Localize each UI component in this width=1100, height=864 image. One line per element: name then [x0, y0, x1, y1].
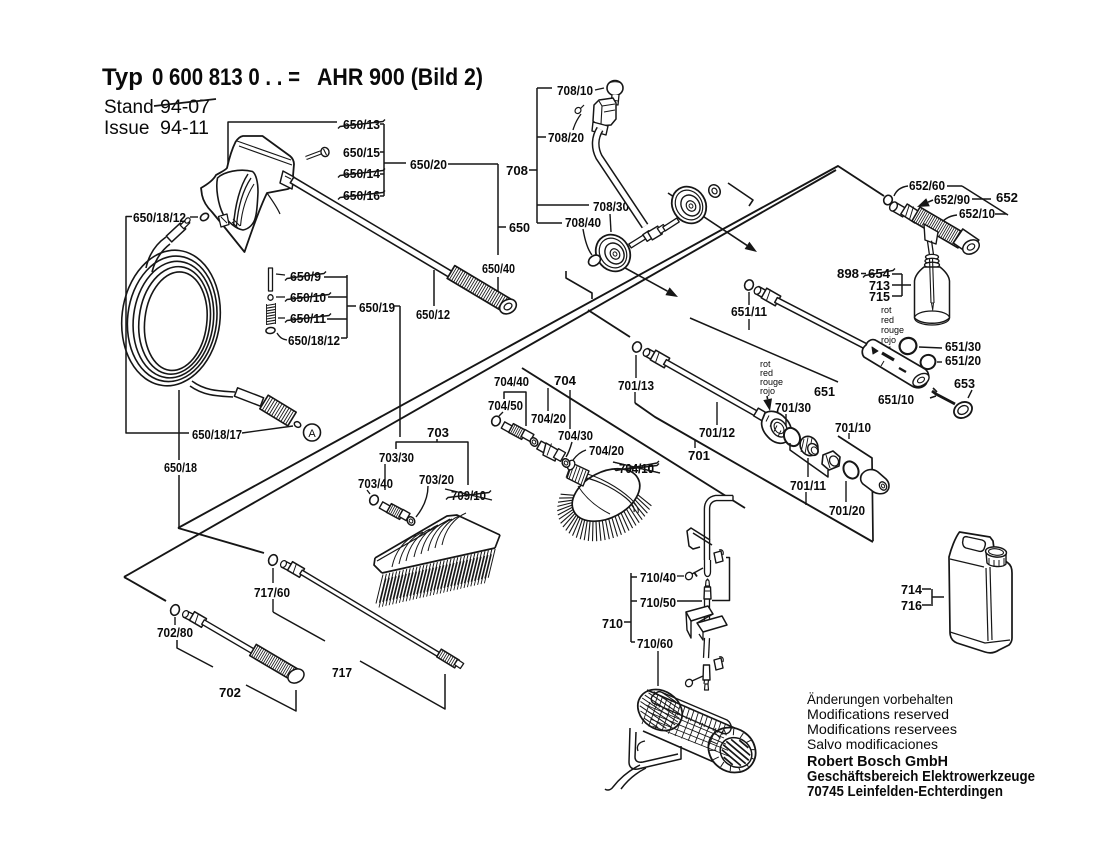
- bracket 714 716: [922, 588, 931, 590]
- adapter 704/40: [501, 422, 513, 433]
- leader 704/20 b: [573, 450, 586, 460]
- svg-text:714: 714: [901, 583, 922, 597]
- svg-text:A: A: [308, 428, 316, 440]
- brush 703 bristles: [376, 575, 383, 604]
- bracket 702: [177, 640, 213, 667]
- canister 714 body: [949, 532, 1012, 653]
- bracket gun labels right: [383, 124, 385, 196]
- brush 703 comb arcs: [392, 535, 416, 567]
- o-ring 701/13: [631, 341, 643, 354]
- svg-text:652/90: 652/90: [934, 193, 970, 207]
- nut 701/11 b: [822, 451, 840, 470]
- svg-text:704/50: 704/50: [488, 399, 523, 413]
- lance 650/12: [290, 177, 456, 280]
- leader 701: [694, 440, 696, 448]
- leader 703/40: [367, 490, 370, 494]
- grip 702: [250, 644, 301, 681]
- leader 701/10: [848, 433, 850, 439]
- o-ring 708/40: [586, 253, 602, 268]
- svg-text:650/19: 650/19: [359, 301, 395, 315]
- roller left end 710/60: [630, 681, 690, 739]
- svg-text:898: 898: [837, 267, 859, 281]
- svg-text:710/40: 710/40: [640, 571, 676, 585]
- threaded end 717: [437, 649, 460, 668]
- wheel left 708: [589, 228, 637, 278]
- gun outlet collar: [280, 171, 294, 189]
- svg-text:Geschäftsbereich Elektrowerkze: Geschäftsbereich Elektrowerkzeuge: [807, 769, 1035, 785]
- leader 717/60: [272, 568, 274, 583]
- svg-text:715: 715: [869, 290, 890, 304]
- bracket hose left: [126, 217, 189, 434]
- lance tube 701: [664, 360, 759, 417]
- stand wire 710: [629, 728, 681, 769]
- lance tip 651: [755, 287, 768, 299]
- o-ring 650/18/12 small: [266, 327, 276, 334]
- svg-text:650/18/12: 650/18/12: [288, 334, 340, 348]
- bracket 710: [630, 573, 632, 642]
- roller handle tube 710: [707, 498, 733, 560]
- bottle dip tube: [930, 258, 932, 303]
- svg-text:650/18/17: 650/18/17: [192, 428, 242, 442]
- screw 708/20: [577, 105, 584, 112]
- o-ring 703/40: [368, 494, 380, 507]
- connector sleeve 710/50: [704, 587, 711, 599]
- washer 708: [706, 183, 722, 200]
- canister handle slot: [963, 537, 986, 552]
- leader 710/60: [657, 651, 659, 686]
- svg-text:703/20: 703/20: [419, 473, 454, 487]
- basket fence bars: [655, 695, 659, 706]
- svg-text:701/13: 701/13: [618, 379, 654, 393]
- svg-text:652/10: 652/10: [959, 207, 995, 221]
- svg-text:651: 651: [814, 385, 835, 399]
- svg-text:710: 710: [602, 617, 623, 631]
- grip 650/40: [447, 266, 512, 313]
- bracket 652: [947, 185, 962, 187]
- svg-text:701/11: 701/11: [790, 479, 826, 493]
- bracket 708 top right: [728, 183, 753, 206]
- tube joint 710: [705, 560, 711, 577]
- adapter 703/40: [379, 502, 391, 513]
- hook 710: [687, 528, 710, 549]
- svg-text:701/20: 701/20: [829, 504, 865, 518]
- separator B corner branch to o-ring 702/80: [124, 577, 166, 601]
- svg-text:717: 717: [332, 666, 352, 680]
- basket mesh: [642, 702, 650, 724]
- leader 710/40: [677, 575, 684, 577]
- leader 703/30: [384, 464, 386, 490]
- washer 703/20: [406, 515, 417, 526]
- separator fork branch to o-ring 701/13: [588, 310, 630, 337]
- marker A circle: [304, 424, 321, 441]
- svg-text:rouge: rouge: [881, 325, 904, 335]
- o-ring 717/60: [267, 553, 279, 566]
- o-ring at hose nut: [293, 421, 301, 429]
- svg-text:704/40: 704/40: [494, 375, 529, 389]
- svg-text:651/30: 651/30: [945, 340, 981, 354]
- svg-text:Salvo modificaciones: Salvo modificaciones: [807, 736, 938, 752]
- arrow to bell 701/12: [766, 396, 769, 399]
- svg-text:702: 702: [219, 686, 241, 700]
- leader 710/50 dash: [677, 600, 702, 602]
- leader 651/30: [919, 347, 942, 348]
- bracket 717: [273, 612, 325, 641]
- basket rim: [651, 692, 731, 734]
- svg-text:716: 716: [901, 599, 922, 613]
- o-ring 702/80: [169, 603, 181, 616]
- bracket 701/30 701/11: [790, 443, 828, 477]
- svg-text:AHR 900 (Bild 2): AHR 900 (Bild 2): [317, 64, 483, 91]
- nozzle 701/10: [861, 470, 889, 494]
- separator line A: [178, 166, 884, 528]
- lance tip 701: [644, 349, 657, 361]
- leader 703/20: [416, 486, 428, 517]
- lance tube 702: [202, 620, 258, 655]
- lance tube 651: [775, 298, 871, 351]
- leader 651/11: [748, 292, 750, 305]
- svg-text:94-11: 94-11: [160, 118, 209, 139]
- svg-text:710/50: 710/50: [640, 596, 676, 610]
- svg-text:701/30: 701/30: [775, 401, 811, 415]
- hose nut 650/18/17: [260, 395, 296, 426]
- coupling 704/30: [537, 441, 550, 454]
- svg-text:Typ: Typ: [102, 64, 143, 91]
- svg-text:Modifications reserved: Modifications reserved: [807, 706, 949, 722]
- leader 650/18/12 top: [190, 216, 198, 218]
- ferrule 701/12: [754, 408, 771, 423]
- separator A corner branch to o-ring 717/60: [178, 528, 264, 553]
- leader 704/50: [499, 412, 503, 416]
- basket body outline: [647, 690, 737, 729]
- svg-text:0 600 813 0 . . =: 0 600 813 0 . . =: [152, 64, 300, 91]
- sprayer barrel 652/10: [912, 207, 966, 248]
- svg-text:717/60: 717/60: [254, 586, 290, 600]
- svg-text:703: 703: [427, 426, 449, 440]
- svg-text:652: 652: [996, 191, 1018, 205]
- svg-text:708/40: 708/40: [565, 216, 601, 230]
- lance tip 702: [183, 611, 194, 621]
- svg-text:708/30: 708/30: [593, 200, 629, 214]
- bottle 713: [915, 267, 950, 323]
- bracket 704/40: [504, 392, 526, 426]
- hose bottom tail: [192, 381, 235, 392]
- leader 708/40: [583, 229, 592, 255]
- o-ring 652/60: [882, 194, 893, 206]
- clamp block 708/20: [593, 98, 616, 126]
- leader 708/30: [610, 214, 611, 232]
- knob 708/10: [607, 81, 623, 96]
- o-ring 704/50: [490, 415, 502, 428]
- clip 710 a: [714, 551, 723, 563]
- leader 650/19 down: [393, 305, 400, 307]
- svg-text:701/10: 701/10: [835, 421, 871, 435]
- svg-text:703/30: 703/30: [379, 451, 414, 465]
- leader 704/20 from separator: [547, 388, 549, 411]
- leader 708/10: [595, 88, 604, 90]
- washer 704/20 b front: [561, 457, 572, 468]
- svg-text:Robert Bosch GmbH: Robert Bosch GmbH: [807, 754, 948, 770]
- leader 701/12: [716, 402, 718, 425]
- svg-text:650/15: 650/15: [343, 146, 380, 160]
- lance tube 717: [300, 570, 442, 658]
- svg-text:704: 704: [554, 374, 576, 388]
- leader 708/20: [573, 114, 581, 130]
- svg-text:708/20: 708/20: [548, 131, 584, 145]
- svg-text:710/60: 710/60: [637, 637, 673, 651]
- svg-text:rojo: rojo: [760, 386, 775, 396]
- nozzle 651/10: [862, 340, 928, 388]
- canister creases: [950, 559, 984, 567]
- hose ferrule 650/18/17: [234, 388, 263, 406]
- svg-text:Modifications reservees: Modifications reservees: [807, 721, 957, 737]
- sprayer T branch: [924, 224, 938, 244]
- bracket frame 701/10 right side: [838, 436, 873, 541]
- leader 701/20: [845, 481, 847, 502]
- bracket 708: [536, 88, 538, 223]
- separator line C2 701 group bracket: [635, 403, 873, 542]
- leader 652/10 curl: [939, 215, 957, 226]
- bracket 710 right: [712, 558, 730, 601]
- svg-text:650/20: 650/20: [410, 158, 447, 172]
- svg-text:650: 650: [509, 221, 530, 235]
- leader diag 651: [690, 318, 838, 382]
- svg-text:703/40: 703/40: [358, 477, 393, 491]
- clamp lower piece: [592, 122, 608, 135]
- gun body crease: [267, 193, 280, 214]
- svg-text:651/20: 651/20: [945, 354, 981, 368]
- arrow to nozzle 651/10: [885, 346, 887, 347]
- svg-text:rot: rot: [881, 305, 892, 315]
- roller drum 710/60: [700, 718, 765, 781]
- leader 652/60 curl: [894, 186, 908, 196]
- screw 710/40: [692, 568, 703, 574]
- bracket 708 bottom left: [566, 271, 592, 299]
- leader arrow 652/90: [928, 200, 933, 202]
- o-ring 650/18/12 top: [199, 212, 210, 222]
- gun trigger opening: [217, 170, 258, 230]
- separator line C1 under 703/704 group: [522, 368, 745, 508]
- o-ring 651/20: [918, 352, 938, 371]
- svg-text:704/30: 704/30: [558, 429, 593, 443]
- clip 710 b: [714, 658, 723, 670]
- leader 650/12: [433, 270, 435, 306]
- leader 701/13: [635, 355, 637, 378]
- brush 703 bottom edge: [382, 548, 495, 573]
- spray gun body 650: [201, 136, 294, 252]
- gun trigger: [234, 174, 249, 226]
- hose nipple 650/18: [166, 223, 185, 242]
- svg-text:650/18/12: 650/18/12: [133, 211, 186, 225]
- bell cup 701/12: [762, 411, 792, 443]
- washer 704/20 b: [561, 457, 572, 468]
- svg-text:701/12: 701/12: [699, 426, 735, 440]
- svg-text:red: red: [881, 315, 894, 325]
- brush 704 connector stub: [567, 463, 589, 486]
- roller drum face: [714, 732, 757, 774]
- pin 650/9: [269, 268, 273, 291]
- svg-text:rojo: rojo: [881, 335, 896, 345]
- hose coil 650/18: [114, 245, 228, 392]
- washer 704/20: [529, 436, 540, 447]
- svg-text:651/11: 651/11: [731, 305, 767, 319]
- round brush 704/10 dome: [563, 458, 648, 532]
- ring 650/10: [268, 295, 273, 301]
- svg-text:708: 708: [506, 164, 528, 178]
- assembly arrow 1: [668, 193, 747, 245]
- gun trigger stop: [219, 214, 230, 227]
- svg-text:704/20: 704/20: [531, 412, 566, 426]
- wheel right 708: [665, 180, 713, 230]
- handle tube 708: [596, 129, 645, 226]
- bracket gun top 650/13: [228, 122, 337, 165]
- svg-text:Änderungen vorbehalten: Änderungen vorbehalten: [807, 691, 953, 707]
- svg-text:704/20: 704/20: [589, 444, 624, 458]
- o-ring 651/30: [897, 335, 919, 357]
- svg-text:701: 701: [688, 449, 710, 463]
- leader 651/20: [937, 361, 942, 363]
- svg-text:708/10: 708/10: [557, 84, 593, 98]
- svg-text:650/12: 650/12: [416, 308, 450, 322]
- svg-text:70745 Leinfelden-Echterdingen: 70745 Leinfelden-Echterdingen: [807, 784, 1003, 800]
- svg-text:Stand: Stand: [104, 97, 154, 118]
- screw 650/15: [306, 152, 322, 158]
- leader 701/30: [785, 414, 787, 426]
- connector 710 lower: [703, 665, 710, 680]
- svg-text:650/40: 650/40: [482, 262, 515, 276]
- bracket 713 715: [901, 274, 903, 296]
- flat brush 703 body: [374, 515, 500, 573]
- hose top tail: [146, 237, 166, 268]
- svg-text:650/18: 650/18: [164, 461, 197, 475]
- o-ring 651/11: [743, 279, 755, 292]
- dome surface lines: [580, 477, 634, 512]
- svg-text:652/60: 652/60: [909, 179, 945, 193]
- canister cap: [986, 551, 1006, 567]
- spring 650/11: [267, 304, 276, 306]
- roller drum ribs: [740, 733, 743, 738]
- bracket 703: [396, 442, 468, 485]
- svg-text:702/80: 702/80: [157, 626, 193, 640]
- leader 701/11: [807, 458, 809, 477]
- gun top chamfer lines: [237, 141, 291, 160]
- round brush 704/10 bristles: [638, 495, 652, 506]
- rod 710 mid: [704, 599, 706, 630]
- svg-text:Issue: Issue: [104, 118, 149, 139]
- bottle neck threads: [926, 254, 939, 259]
- leader 650/18/17: [242, 426, 293, 433]
- axle 708: [629, 234, 647, 248]
- screw 710 lower: [692, 676, 703, 681]
- wing bracket 710/50: [686, 606, 713, 621]
- bracket small parts 650/19: [346, 275, 348, 338]
- separator line B: [124, 170, 836, 577]
- lance tip 717: [281, 561, 292, 571]
- leader 704/30: [566, 442, 572, 457]
- assembly arrow 2: [596, 252, 668, 291]
- o-ring 701/20: [840, 459, 861, 482]
- nut 701/11 a: [797, 433, 822, 459]
- svg-text:653: 653: [954, 377, 975, 391]
- sprayer tip 652/90: [891, 202, 908, 217]
- grip end cap: [497, 296, 519, 317]
- svg-text:651/10: 651/10: [878, 393, 914, 407]
- leader 650/18: [178, 390, 180, 460]
- leader 702/80: [174, 617, 176, 625]
- o-ring 701/30: [781, 425, 803, 449]
- leader 704: [569, 390, 571, 429]
